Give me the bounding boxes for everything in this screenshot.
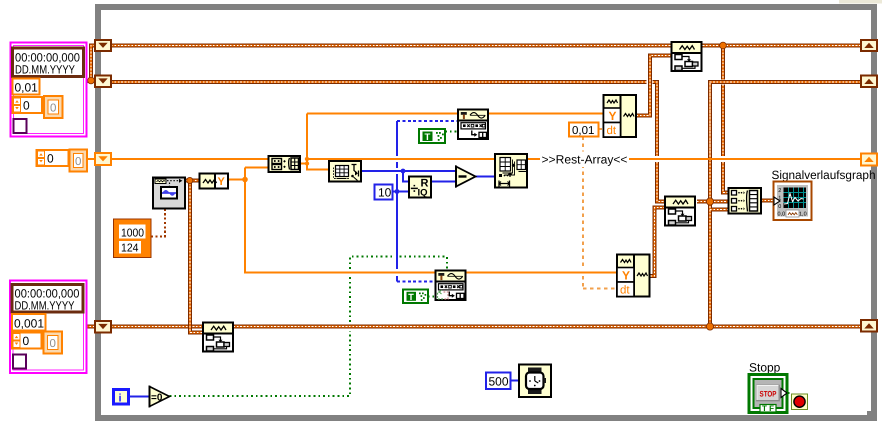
cluster constant 1000 / 124 [114,219,152,258]
gray express node (waveform chart) [153,178,185,209]
wire left SR3 to Index-Bundle node input 1 (orange DBL array) [111,158,269,160]
wire left SR4 through W2 to right SR4 (waveform) [111,325,861,329]
boolean constant T (bottom) [403,290,428,304]
svg-text:DD.MM.YYYY: DD.MM.YYYY [15,63,75,77]
standalone array control (empty DBL array) [37,150,88,172]
right shift register SR3 (orange) [861,154,877,166]
svg-text:Stopp: Stopp [749,361,781,375]
boolean constant T (top) [419,129,445,143]
subtract node [456,166,476,188]
window edge beige strip top right [835,0,882,4]
build waveform node W1 (top right) [672,42,702,71]
left shift register SR2 (timestamp) [95,76,111,88]
build waveform node W3 (middle right) [665,197,695,226]
svg-text:0,001: 0,001 [14,317,44,331]
wire const 0,01 to top dt input (peach dashed) [599,128,604,130]
junction Y output branch [242,177,248,183]
wire cluster constant 1000/124 to gray node (brown dotted cluster) [151,209,165,237]
array control in cluster 2 [12,332,62,354]
wire blue vertical from 10 (blue integer) [396,121,398,282]
timestamp control 1 [13,48,84,77]
svg-text:Signalverlaufsgraph: Signalverlaufsgraph [772,168,876,182]
wire blue to top align node (blue integer) [397,120,458,122]
Index and Bundle Cluster Array node [269,156,301,172]
wire left SR2 down to node W3 input (waveform) [111,82,665,202]
align waveform timestamps node (bottom) [436,271,466,301]
svg-text:0,01: 0,01 [15,81,39,95]
reshape/interpolate array node (node2) [329,161,361,182]
svg-text:2: 2 [778,188,781,194]
svg-text:=0: =0 [151,393,163,404]
wire Build Waveform bottom output up to W3 second input (waveform) [651,208,666,277]
wire const 0,01 down to bottom dt input (peach dashed) [583,137,619,290]
wire T constant to top align node (boolean green dotted) [445,131,458,133]
loop conditional terminal (stop LED) [792,394,808,410]
svg-text:i: i [119,393,122,405]
numeric constant 10 [375,185,393,200]
numeric constant 0,01 [569,123,599,137]
wire Y component branch to Index-Bundle input 2 and lower path to Build Waveform Y (orange DBL array) [228,168,617,273]
numeric constant 0,01 in cluster 1 [13,79,40,95]
junction bottom waveform wire [706,323,713,330]
wire Build Array output to waveform graph terminal (waveform) [761,199,774,203]
wire equal zero output to bottom align node (boolean green dotted) [170,257,448,397]
wire Index-Bundle output up to align node and top Build Waveform Y (orange DBL array) [300,114,603,170]
svg-text:0: 0 [47,152,54,166]
align waveform timestamps node (top) [458,110,488,140]
wire constant 10 to quotient input (blue integer) [393,191,410,193]
svg-text:>>Rest-Array<<: >>Rest-Array<< [542,153,628,167]
wire left SR1 to Build Waveform W1 to right SR1 (waveform) [111,44,861,48]
right shift register SR4 [861,320,877,332]
svg-text:0: 0 [50,338,56,350]
iteration terminal i [114,390,129,405]
junction cluster1 split [88,77,95,84]
svg-text:0: 0 [75,156,81,168]
quotient and remainder node [409,177,431,199]
svg-text:0: 0 [23,99,30,113]
svg-text:0: 0 [23,334,30,348]
junction W3 output [706,198,713,205]
svg-text:0: 0 [778,204,781,210]
svg-text:0,0: 0,0 [778,212,786,218]
right shift register SR2 [861,76,877,88]
svg-text:T F: T F [762,404,774,413]
svg-text:0,01: 0,01 [572,125,594,137]
cluster control 1 (timestamp, 0,01, array, boolean) [11,43,87,137]
junction W1 output [720,42,727,49]
stop button terminal [749,375,787,414]
equal to zero node [150,386,170,408]
svg-text:T: T [408,292,414,302]
wire gray node output to Get Waveform Components (waveform) [185,179,200,183]
wire subtract output to node4 (blue integer) [476,176,496,178]
numeric constant 0,001 in cluster 2 [12,314,46,331]
build waveform node W2 (bottom left) [203,323,233,352]
left shift register SR1 (timestamp) [95,40,111,51]
svg-text:IQ: IQ [418,188,428,199]
build waveform node Y dt (top) [604,95,637,137]
numeric constant 500 [486,373,511,390]
Get Waveform Components node (Y) [200,174,229,189]
label Rest-Array [540,152,629,168]
svg-text:T: T [425,132,431,143]
wire timestamp cluster 2 to left shift register 4 (waveform) [86,325,95,329]
junction blue constant 10 [395,189,400,194]
svg-text:DD.MM.YYYY: DD.MM.YYYY [15,299,75,313]
svg-text:124: 124 [121,243,139,255]
wire timestamp cluster 1 to left shift registers (waveform) [86,46,95,82]
loop glyph on bottom align node [438,292,449,299]
svg-text:500: 500 [489,375,509,389]
wire W1 output down to Build Array input 1 (waveform) [723,46,729,193]
waveform graph terminal [774,182,812,221]
wait ms node (wristwatch) [519,365,551,398]
array subset node (node4) [495,154,527,188]
left shift register SR4 (timestamp) [95,321,111,333]
wire W3 output to junctions, right SR2, Build Array inputs (waveform) [697,82,861,327]
svg-text:1,0: 1,0 [799,212,807,218]
wire quotient R output to subtract (blue integer) [431,181,455,183]
boolean control in cluster 1 [14,119,27,133]
timestamp control 2 [12,285,83,313]
svg-text:10: 10 [378,186,392,200]
wire blue to bottom align node (blue integer) [397,281,436,283]
junction long array wire [305,157,309,161]
wire T constant to bottom align node (boolean green dotted) [428,296,436,298]
boolean control in cluster 2 [13,355,26,369]
svg-text:STOP: STOP [760,390,778,399]
wire iteration terminal to equals zero (blue integer) [129,396,149,398]
junction J0 gray node output [187,177,193,183]
right shift register SR1 [861,40,877,51]
wire 500 to wait node (blue integer) [511,380,520,382]
svg-text:Y: Y [218,176,226,188]
wire junction down to W2 second input (waveform) [190,183,203,333]
cluster control 2 (timestamp, 0,001, array, boolean) [10,281,87,374]
wire array control to left SR3 (orange DBL array) [87,158,95,160]
array control in cluster 1 [13,96,63,118]
wire Build Waveform top output up to W1 second input (waveform) [637,56,672,116]
wire node2 output to subtract and quotient (blue integer) [361,171,455,182]
left shift register SR3 (orange, array) [95,153,111,165]
wire long array wire to node4 and right SR3 (orange DBL array) [307,158,861,160]
svg-text:0: 0 [50,103,56,115]
svg-text:1000: 1000 [121,228,144,240]
build array node [729,188,762,214]
wire stop button to conditional terminal (boolean green dotted) [788,392,793,394]
build waveform node Y dt (bottom) [617,255,650,297]
junction node1 output [305,161,309,165]
junction blue node2 output [401,169,406,174]
